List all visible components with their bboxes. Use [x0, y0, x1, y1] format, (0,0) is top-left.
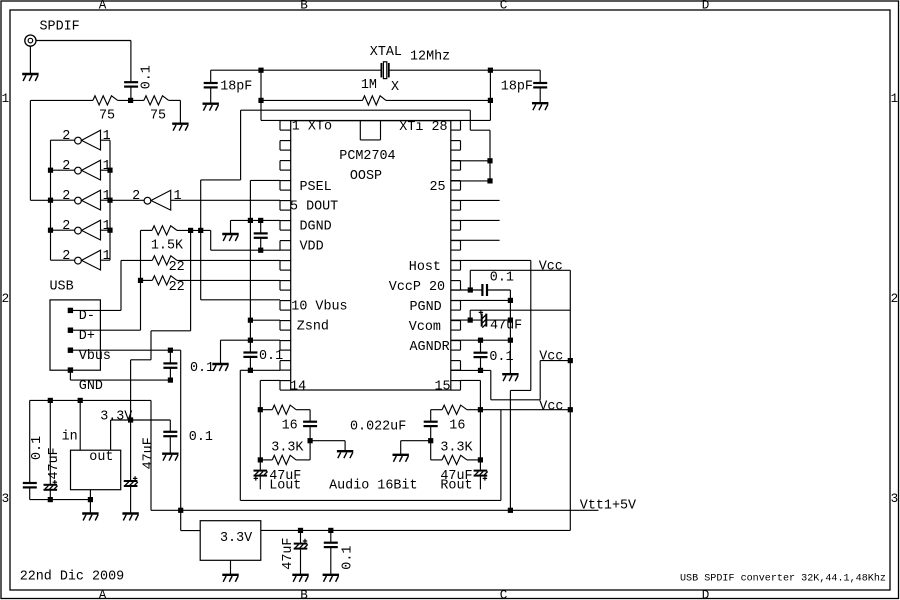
ic U2 left pin 10 notch — [280, 301, 291, 311]
wire DGND cap lower lead — [260, 238, 262, 250]
wire DGND cap upper lead — [260, 220, 262, 233]
svg-text:PSEL: PSEL — [300, 180, 332, 195]
resistor R4 1.5K — [152, 226, 177, 235]
junction Lout 3.3K — [258, 457, 263, 462]
wire C17 top lead — [480, 340, 482, 352]
junction pin16 node — [478, 368, 483, 373]
wire pin12 ground arm — [221, 339, 251, 341]
svg-text:Vtt1+5V: Vtt1+5V — [580, 498, 636, 513]
junction xtal right bottom — [488, 98, 493, 103]
wire C8 top lead — [29, 400, 31, 482]
junction C18 — [298, 528, 303, 533]
svg-text:2: 2 — [132, 189, 140, 204]
capacitor C6 0.1 Vbus — [163, 363, 177, 367]
junction pin12 — [248, 338, 253, 343]
resistor R3 1M — [363, 96, 387, 105]
svg-text:D: D — [702, 589, 710, 600]
svg-text:1.5K: 1.5K — [151, 238, 184, 253]
junction 1.5K to 3.3V — [188, 228, 193, 233]
wire VDD jog horizontal — [201, 229, 211, 231]
ground at C18 — [292, 575, 308, 582]
wire C16 right lead — [486, 319, 510, 321]
junction Zsnd — [248, 318, 253, 323]
wire inverter U1a output stub — [51, 139, 75, 141]
svg-text:0.1: 0.1 — [140, 65, 155, 89]
capacitor C19 0.1 Vcc — [324, 543, 338, 547]
wire Vcom lead — [451, 319, 482, 321]
capacitor C18 47uF Vcc — [294, 539, 308, 549]
svg-text:75: 75 — [150, 109, 166, 124]
ic U2 right pin 25 notch — [451, 181, 461, 191]
svg-text:Vbus: Vbus — [79, 349, 111, 364]
capacitor C17 0.1 AGNDR — [474, 353, 488, 357]
wire C10 bottom lead — [130, 487, 132, 513]
svg-text:47uF: 47uF — [281, 538, 296, 570]
junction VDD cap — [258, 248, 263, 253]
wire pin16 jog — [491, 399, 540, 401]
regulator U4 3.3V box — [200, 521, 261, 561]
wire C9 top lead — [169, 420, 171, 432]
svg-text:Vcc: Vcc — [539, 259, 563, 274]
svg-text:DGND: DGND — [300, 220, 332, 235]
ground at C3 — [532, 103, 548, 110]
wire 3.3V jog2 — [131, 359, 151, 361]
resistor R10 3.3K — [442, 455, 467, 464]
ground right column — [502, 374, 518, 381]
wire inverter U1a input stub — [101, 139, 111, 141]
wire gnd bottom bus — [30, 499, 91, 501]
wire inverter U1c output stub — [51, 199, 75, 201]
svg-text:PGND: PGND — [410, 300, 442, 315]
wire R7 left lead — [260, 409, 272, 411]
wire R5 right to pin8 — [177, 259, 280, 261]
junction Vcc 3 — [568, 407, 573, 412]
svg-text:X: X — [391, 80, 399, 95]
wire pin15 lead — [461, 379, 481, 381]
svg-text:1: 1 — [891, 92, 899, 106]
inverter U1a — [75, 130, 101, 150]
junction input bus — [107, 228, 112, 233]
wire 18pF right bottom lead — [539, 88, 541, 103]
svg-text:3.3K: 3.3K — [440, 440, 473, 455]
wire osc bus jog left — [201, 179, 241, 181]
ic U2 top orientation notch — [360, 121, 380, 140]
wire pin24 stub — [451, 199, 500, 201]
svg-text:1: 1 — [2, 92, 10, 106]
wire C11 to 3.3K — [309, 441, 311, 460]
wire pin12 ground stem — [220, 340, 222, 363]
wire osc bus right drop — [469, 110, 471, 130]
ic U2 right pin 17 notch — [451, 341, 461, 351]
ic U2 left pin 13 notch — [280, 361, 291, 371]
junction C19 — [328, 528, 333, 533]
svg-text:Vcom: Vcom — [409, 320, 441, 335]
ic U2 right pin 20 notch — [451, 281, 461, 291]
wire D+ vertical — [140, 230, 142, 330]
capacitor C1 0.1 coupling — [124, 82, 138, 86]
capacitor C5 0.1 Zsnd — [243, 353, 257, 357]
wire Vcc vertical rail — [569, 270, 571, 530]
wire C13 bottom lead — [430, 426, 432, 441]
wire pin14 lead — [260, 379, 280, 381]
capacitor C4 0.1 at DGND — [254, 233, 268, 237]
wire 3.3V from R4 vertical — [190, 230, 192, 330]
wire 5V rail drop — [150, 400, 152, 510]
wire gate input bus vertical — [109, 140, 111, 260]
wire C6 top lead — [169, 350, 171, 363]
connector J2 USB box — [50, 300, 100, 370]
wire C11 top lead — [309, 410, 311, 422]
svg-text:22nd Dic 2009: 22nd Dic 2009 — [20, 570, 124, 585]
svg-text:18pF: 18pF — [501, 79, 533, 94]
wire C18 top lead — [300, 530, 302, 542]
wire DGND ground stem — [230, 220, 232, 233]
wire C8 bottom lead — [29, 488, 31, 500]
resistor R5 22 — [152, 256, 177, 265]
wire gate output bus vertical — [50, 140, 52, 260]
wire R9 left lead — [431, 409, 442, 411]
wire R2 to ground — [179, 100, 181, 123]
wire right gnd column — [509, 290, 511, 373]
junction Rout 16ohm — [478, 407, 483, 412]
wire inverter U1d input stub — [101, 229, 111, 231]
svg-text:D-: D- — [79, 309, 95, 324]
junction pin26 bus — [487, 158, 492, 163]
ic U2 right pin 27 notch — [451, 141, 461, 151]
inverter U1b — [75, 160, 101, 180]
junction Vbus cap — [168, 348, 173, 353]
wire Vbus pin10 lead — [201, 299, 280, 301]
wire inverter U1b input stub — [101, 169, 111, 171]
junction xtal right top — [488, 68, 493, 73]
svg-text:1: 1 — [103, 129, 111, 144]
wire C7 bottom lead — [49, 491, 51, 500]
wire Rout stub — [479, 476, 481, 489]
wire pin13 lead — [250, 369, 280, 371]
ic U2 PCM2704 body — [291, 121, 451, 390]
wire inverter U1e output stub — [51, 259, 75, 261]
svg-text:47uF: 47uF — [142, 437, 157, 469]
wire 1.5K right lead — [177, 229, 201, 231]
ic U2 left pin 2 notch — [280, 141, 291, 151]
wire osc bus horizontal — [241, 109, 471, 111]
svg-text:B: B — [300, 0, 308, 13]
ground at C9 — [162, 454, 178, 461]
svg-text:1M: 1M — [361, 78, 377, 93]
wire C13 gnd arm — [401, 440, 431, 442]
wire 18pF left top lead — [210, 70, 212, 82]
wire C11 gnd stem — [344, 441, 346, 451]
svg-text:2: 2 — [62, 219, 70, 234]
wire Vcc drop to VccP — [469, 270, 471, 290]
inverter U1c — [75, 190, 101, 210]
svg-text:1: 1 — [103, 249, 111, 264]
wire C13 gnd stem — [400, 441, 402, 454]
svg-text:Host: Host — [409, 260, 441, 275]
capacitor C14 47uF Rout — [474, 471, 488, 481]
svg-text:0.1: 0.1 — [489, 350, 513, 365]
ic U2 right pin 15 notch — [451, 381, 461, 391]
wire Vcc out rail — [261, 529, 571, 531]
junction rail reg2 — [178, 508, 183, 513]
ground at C2 — [203, 104, 219, 111]
wire pin26 to bus — [451, 160, 490, 162]
wire C11 bottom lead — [309, 426, 311, 441]
svg-text:2: 2 — [62, 189, 70, 204]
wire C17 bottom lead — [480, 357, 482, 370]
wire R9 right lead — [467, 409, 481, 411]
wire Vbus pin10 vertical — [200, 230, 202, 299]
junction 5V to reg in — [78, 398, 83, 403]
wire C19 top lead — [330, 530, 332, 542]
junction rail host — [508, 508, 513, 513]
wire pin16 drop — [490, 370, 492, 399]
wire 1M right — [386, 99, 490, 101]
ground at C10 — [122, 514, 138, 521]
wire jack ground stem — [29, 46, 31, 73]
svg-text:USB: USB — [50, 280, 74, 295]
svg-text:Audio 16Bit: Audio 16Bit — [329, 479, 417, 494]
wire usb GND drop — [69, 370, 71, 380]
junction AGNDR left — [478, 338, 483, 343]
ic U2 left pin 6 notch — [280, 221, 291, 231]
svg-text:SPDIF: SPDIF — [40, 19, 80, 34]
junction xtal left top — [258, 68, 263, 73]
capacitor C13 0.022uF R — [424, 422, 438, 426]
capacitor C8 0.1 input — [23, 483, 37, 487]
wire left xtal node vertical — [260, 70, 262, 120]
wire VDD jog vertical — [210, 230, 212, 250]
svg-text:15: 15 — [435, 380, 451, 395]
svg-text:1 XTo: 1 XTo — [292, 120, 332, 135]
wire VDD lead — [211, 249, 280, 251]
wire 1M left — [261, 99, 363, 101]
svg-text:0.1: 0.1 — [190, 361, 214, 376]
svg-text:C: C — [500, 0, 508, 13]
svg-text:14: 14 — [290, 380, 306, 395]
wire Host vertical — [530, 260, 532, 390]
ic U2 right pin 18 notch — [451, 321, 461, 331]
wire pin23 stub — [451, 219, 500, 221]
wire PSEL lead — [250, 179, 280, 181]
wire 3.3V drop1 — [150, 331, 152, 360]
junction 5V to C7 — [48, 398, 53, 403]
junction C11 bottom — [308, 438, 313, 443]
svg-text:3.3V: 3.3V — [100, 410, 132, 425]
wire right pins bus vertical — [489, 130, 491, 181]
svg-text:PCM2704: PCM2704 — [339, 149, 395, 164]
capacitor C11 0.022uF L — [303, 422, 317, 426]
ic U2 left pin 12 notch — [280, 341, 291, 351]
svg-text:in: in — [62, 429, 78, 444]
svg-text:3.3K: 3.3K — [271, 440, 304, 455]
wire R1 to R2 — [118, 99, 144, 101]
svg-text:0.1: 0.1 — [30, 436, 45, 460]
crystal X1 12MHz — [381, 62, 388, 79]
junction 75/cap node — [128, 98, 133, 103]
svg-text:2: 2 — [891, 292, 899, 306]
svg-text:0.022uF: 0.022uF — [350, 419, 406, 434]
wire cap C1 bottom lead — [130, 87, 132, 101]
svg-text:47uF: 47uF — [47, 447, 62, 479]
svg-text:A: A — [99, 589, 107, 600]
ic U2 right pin 24 notch — [451, 201, 461, 211]
wire PGND lead — [451, 299, 511, 301]
wire R7 right lead — [296, 409, 310, 411]
wire Vbus down right — [180, 350, 182, 510]
ic U2 right pin 23 notch — [451, 221, 461, 231]
wire XTo-XTi top bus — [261, 119, 490, 121]
wire reg2 in arm — [181, 530, 201, 532]
ground at DGND — [222, 234, 238, 241]
capacitor C16 47uF Vcom — [479, 310, 487, 328]
wire Vtt 5V rail — [151, 509, 599, 511]
junction PSEL-DGND — [248, 218, 253, 223]
svg-text:XTi 28: XTi 28 — [399, 120, 447, 135]
svg-text:2: 2 — [2, 292, 10, 306]
junction PGND — [508, 298, 513, 303]
svg-text:Vcc: Vcc — [539, 399, 563, 414]
wire Host jog — [510, 389, 530, 391]
wire pin16 rise — [539, 361, 541, 400]
wire 1.5K left lead — [141, 229, 153, 231]
ground at C19 — [323, 575, 339, 582]
wire R8 left lead — [260, 459, 272, 461]
wire 3.3V jog1 — [151, 330, 191, 332]
ic U2 left pin 3 notch — [280, 161, 291, 171]
wire reg1 in stem — [79, 400, 81, 450]
wire Vcom to Vcc — [470, 309, 570, 311]
wire 3.3V out — [111, 419, 171, 421]
wire osc bus right jog — [470, 129, 490, 131]
wire audio box bottom edge — [240, 499, 501, 501]
wire D- horizontal — [70, 309, 121, 311]
capacitor C15 0.1 VccP — [482, 284, 487, 296]
svg-text:2: 2 — [62, 129, 70, 144]
ground at R2 — [172, 124, 188, 131]
wire Vcom up — [469, 310, 471, 320]
ic U2 left pin 9 notch — [280, 281, 291, 291]
svg-text:0.1: 0.1 — [259, 349, 283, 364]
wire PSEL/DGND vertical upper — [249, 180, 251, 352]
wire Vcc arm 2 — [540, 360, 570, 362]
ic U2 left pin 4 notch — [280, 181, 291, 191]
ic U2 left pin 8 notch — [280, 261, 291, 271]
wire inverter U1b output stub — [51, 169, 75, 171]
svg-text:C: C — [500, 589, 508, 600]
wire VccP lead — [451, 289, 483, 291]
wire reg2 gnd stem — [230, 560, 232, 574]
svg-text:Zsnd: Zsnd — [297, 320, 329, 335]
ic U2 right pin 21 notch — [451, 261, 461, 271]
wire audio box left edge — [239, 370, 241, 500]
wire Host lead — [451, 259, 531, 261]
wire to gate output bus — [30, 199, 50, 201]
junction Vcc 2 — [568, 358, 573, 363]
wire Host to 5V rail — [509, 390, 511, 510]
svg-text:3.3V: 3.3V — [220, 531, 252, 546]
svg-text:2: 2 — [62, 159, 70, 174]
svg-text:12Mhz: 12Mhz — [410, 50, 450, 65]
svg-text:Vcc: Vcc — [539, 349, 563, 364]
svg-text:Lout: Lout — [269, 479, 301, 494]
wire pin22 stub — [451, 239, 500, 241]
svg-text:1: 1 — [174, 189, 182, 204]
junction 1.5K to VDD jog — [198, 228, 203, 233]
pin Vbus marker — [68, 348, 73, 353]
regulator U3 3.3V box — [71, 450, 121, 490]
wire reg1 gnd stem — [89, 490, 91, 513]
wire R6 right to pin9 — [177, 279, 280, 281]
wire C13 top lead — [430, 410, 432, 422]
capacitor C12 47uF Lout — [254, 471, 268, 481]
junction Lout 16ohm — [258, 407, 263, 412]
resistor R9 16 — [442, 405, 467, 414]
svg-text:Rout: Rout — [440, 479, 472, 494]
svg-text:D: D — [702, 0, 710, 13]
wire 75 ohm line left — [30, 99, 93, 101]
ic U2 left pin 11 notch — [280, 321, 291, 331]
wire osc bus to 1.5K node — [200, 180, 202, 231]
svg-text:VccP 20: VccP 20 — [389, 280, 445, 295]
junction C7 gnd — [48, 497, 53, 502]
wire pin16 lead — [451, 369, 491, 371]
wire R2 right — [169, 99, 181, 101]
wire C9 bottom lead — [169, 436, 171, 453]
svg-text:USB SPDIF converter 32K,44.1,4: USB SPDIF converter 32K,44.1,48Khz — [680, 573, 886, 585]
wire usb GND horizontal — [70, 379, 170, 381]
wire 3.3V drop2 — [130, 360, 132, 420]
wire inverter U1e input stub — [101, 259, 111, 261]
svg-text:25: 25 — [430, 180, 446, 195]
wire 18pF right top lead — [539, 70, 541, 82]
ic U2 left pin 7 notch — [280, 241, 291, 251]
inverter U1d — [75, 220, 101, 240]
wire xtal top left — [211, 69, 382, 71]
ic U2 left pin 1 notch — [280, 121, 291, 131]
wire xtal top right — [389, 69, 540, 71]
svg-text:OOSP: OOSP — [350, 169, 382, 184]
junction C13 bottom — [428, 438, 433, 443]
ic U2 right pin 22 notch — [451, 241, 461, 251]
svg-text:0.1: 0.1 — [341, 546, 356, 570]
svg-text:10 Vbus: 10 Vbus — [291, 300, 347, 315]
wire C10 top lead — [130, 420, 132, 480]
resistor R2 75 — [144, 96, 169, 105]
pin D- marker — [68, 308, 73, 313]
junction Rout 3.3K — [478, 457, 483, 462]
svg-text:B: B — [300, 589, 308, 600]
wire C19 bottom lead — [330, 547, 332, 574]
junction pin25 bus — [487, 178, 492, 183]
capacitor C3 18pF right — [533, 83, 547, 87]
wire Vcc top — [470, 269, 570, 271]
svg-text:0.1: 0.1 — [490, 270, 514, 285]
svg-text:0.1: 0.1 — [189, 430, 213, 445]
resistor R6 22 — [152, 276, 177, 285]
wire reg2 in drop — [180, 510, 182, 530]
svg-text:16: 16 — [449, 419, 465, 434]
wire pin12 lead — [250, 339, 280, 341]
wire U1f to DOUT pin5 — [171, 199, 280, 201]
junction C16 right — [508, 318, 513, 323]
svg-text:3: 3 — [891, 492, 899, 506]
ground at SPDIF jack — [22, 74, 38, 81]
junction DGND cap top — [258, 218, 263, 223]
wire audio box right edge — [500, 410, 502, 501]
wire 18pF left bottom lead — [210, 88, 212, 103]
svg-text:22: 22 — [169, 280, 185, 295]
